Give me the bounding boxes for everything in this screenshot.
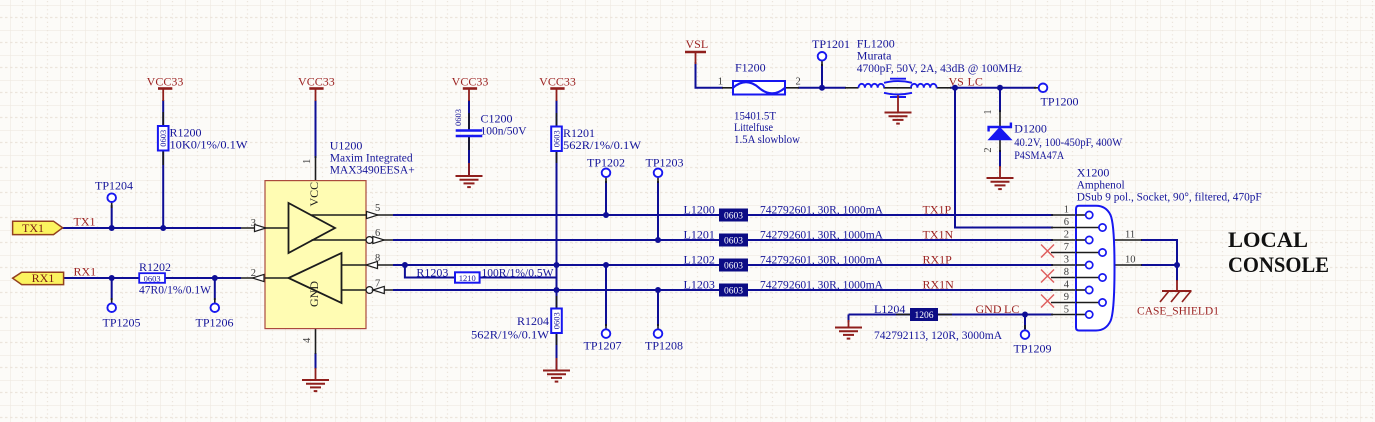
no-ERC mark pin 8 bbox=[1041, 270, 1054, 283]
pin X1200.7 bbox=[1051, 252, 1099, 254]
junction RX1N-R1204 bbox=[554, 287, 560, 293]
ground U1200 pin 4 bbox=[302, 368, 329, 391]
pin TP1207 bbox=[605, 324, 607, 330]
port TX1 bbox=[13, 221, 63, 235]
junction VS_LC pin6 bbox=[952, 85, 958, 91]
svg-text:1210: 1210 bbox=[459, 273, 476, 283]
svg-text:L1201: L1201 bbox=[684, 228, 715, 242]
svg-text:1: 1 bbox=[718, 77, 723, 88]
svg-text:8: 8 bbox=[375, 253, 380, 264]
svg-text:R1202: R1202 bbox=[139, 260, 171, 274]
wire TP1207 rise bbox=[605, 265, 607, 326]
pin R1200 bottom bbox=[162, 151, 164, 166]
junction TP1209 bbox=[1022, 312, 1028, 318]
svg-text:6: 6 bbox=[375, 228, 380, 239]
svg-text:VCC33: VCC33 bbox=[452, 75, 489, 89]
pin X1200.8 bbox=[1051, 277, 1099, 279]
junction RX1P-TP1207 bbox=[603, 262, 609, 268]
wire R1203 branch bbox=[405, 265, 557, 290]
pin TP1205 bbox=[111, 298, 113, 304]
wire TP1205 drop bbox=[111, 278, 113, 300]
svg-text:1.5A slowblow: 1.5A slowblow bbox=[734, 132, 800, 146]
pin U1200.3 bbox=[241, 227, 265, 229]
svg-text:742792601, 30R, 1000mA: 742792601, 30R, 1000mA bbox=[760, 253, 883, 267]
pin U1200.2 bbox=[241, 277, 265, 279]
pin FL1200 middle bbox=[884, 87, 913, 89]
svg-text:2: 2 bbox=[796, 77, 801, 88]
svg-text:L1202: L1202 bbox=[684, 253, 715, 267]
svg-text:3: 3 bbox=[251, 218, 256, 229]
svg-text:L1200: L1200 bbox=[684, 203, 715, 217]
pin X1200.6 bbox=[1051, 227, 1099, 229]
svg-text:TP1208: TP1208 bbox=[645, 339, 683, 353]
svg-text:2: 2 bbox=[1064, 230, 1069, 241]
svg-text:742792601, 30R, 1000mA: 742792601, 30R, 1000mA bbox=[760, 228, 883, 242]
resistor R1203 bbox=[416, 266, 554, 284]
wire GND_LC row bbox=[849, 314, 1054, 316]
svg-text:F1200: F1200 bbox=[735, 61, 766, 75]
pin X1200.3 bbox=[1051, 264, 1086, 266]
svg-text:1: 1 bbox=[1064, 205, 1069, 216]
svg-text:GND: GND bbox=[307, 281, 321, 307]
wire TP1204 drop bbox=[111, 205, 113, 228]
inductor L1200 bbox=[684, 203, 884, 222]
svg-text:0603: 0603 bbox=[551, 130, 561, 147]
svg-text:0603: 0603 bbox=[158, 130, 168, 147]
testpoint TP1200 bbox=[1039, 84, 1079, 109]
svg-text:D1200: D1200 bbox=[1014, 122, 1047, 136]
junction TX1N-TP1203 bbox=[655, 237, 661, 243]
filter FL1200 bbox=[857, 37, 1022, 113]
svg-text:R1203: R1203 bbox=[416, 266, 448, 280]
svg-text:GND: GND bbox=[976, 302, 1002, 316]
pin TP1202 bbox=[605, 177, 607, 183]
U1200 pin 8 arrow bbox=[366, 261, 378, 268]
testpoint TP1204 bbox=[95, 179, 133, 203]
svg-text:L1203: L1203 bbox=[684, 278, 715, 292]
svg-text:VS: VS bbox=[949, 74, 964, 88]
wire VSL vertical bbox=[696, 62, 724, 88]
pin R1201 bottom bbox=[556, 151, 558, 163]
testpoint TP1208 bbox=[645, 329, 683, 352]
testpoint TP1202 bbox=[587, 156, 625, 178]
inductor L1202 bbox=[684, 253, 884, 272]
junction RX1N-TP1208 bbox=[655, 287, 661, 293]
svg-text:742792113, 120R, 3000mA: 742792113, 120R, 3000mA bbox=[874, 328, 1002, 342]
junction TP1201 bbox=[819, 85, 825, 91]
diode D1200 bbox=[983, 110, 1123, 163]
wire DSub pin 11 bbox=[1141, 240, 1177, 265]
svg-text:DSub 9 pol., Socket, 90°, filt: DSub 9 pol., Socket, 90°, filtered, 470p… bbox=[1077, 190, 1262, 204]
fuse F1200 bbox=[718, 61, 801, 146]
svg-text:TX1N: TX1N bbox=[923, 228, 954, 242]
U1200 pin 3 arrow bbox=[255, 224, 267, 231]
junction pin10-11 bbox=[1174, 262, 1180, 268]
svg-text:100R/1%/0.5W: 100R/1%/0.5W bbox=[482, 266, 555, 280]
port RX1 bbox=[13, 271, 64, 285]
testpoint TP1209 bbox=[1014, 330, 1052, 355]
svg-text:VCC: VCC bbox=[307, 182, 321, 207]
wire R1204 to ground bbox=[556, 333, 558, 370]
junction RX1P-R1203 bbox=[402, 262, 408, 268]
net label VSL bbox=[685, 37, 708, 64]
wire R1201 to RX1P bbox=[556, 151, 558, 290]
wire TX1 row to U1200 pin 3 bbox=[63, 227, 241, 229]
svg-text:RX1N: RX1N bbox=[923, 278, 955, 292]
testpoint TP1206 bbox=[196, 303, 234, 329]
U1200 pin 2 arrow bbox=[253, 274, 265, 281]
svg-text:8: 8 bbox=[1064, 267, 1069, 278]
pin X1200.11 bbox=[1114, 239, 1142, 241]
pin U1200.4 bbox=[315, 328, 317, 354]
pin FL1200 right bbox=[937, 87, 952, 89]
junction TX1P-TP1202 bbox=[603, 212, 609, 218]
svg-text:7: 7 bbox=[1064, 242, 1069, 253]
wire to case shield bbox=[1176, 265, 1178, 281]
testpoint TP1205 bbox=[103, 303, 141, 329]
wire C1200 bottom bbox=[468, 136, 470, 176]
pin F1200 left bbox=[722, 87, 733, 89]
svg-text:5: 5 bbox=[375, 203, 380, 214]
pin X1200.1 bbox=[1051, 214, 1086, 216]
pin C1200 bbox=[468, 113, 470, 129]
inductor L1201 bbox=[684, 228, 884, 247]
pin R1204 bottom bbox=[556, 333, 558, 345]
svg-text:VCC33: VCC33 bbox=[147, 75, 184, 89]
svg-text:0603: 0603 bbox=[724, 237, 743, 247]
svg-text:P4SMA47A: P4SMA47A bbox=[1014, 148, 1064, 162]
wire row TX1P bbox=[393, 214, 1053, 216]
wire U1200 pin1 VCC bbox=[315, 100, 317, 158]
U1200 pin 7 bubble+arrow bbox=[366, 286, 384, 293]
title LOCAL CONSOLE bbox=[1228, 227, 1329, 277]
U1200 pin 6 bubble+arrow bbox=[366, 236, 384, 243]
svg-text:R1204: R1204 bbox=[517, 314, 549, 328]
svg-text:1: 1 bbox=[983, 110, 994, 115]
testpoint TP1203 bbox=[646, 156, 684, 178]
U1200 pin 5 arrow bbox=[367, 211, 379, 218]
svg-text:4: 4 bbox=[1064, 280, 1070, 291]
testpoint TP1207 bbox=[584, 329, 622, 352]
wire L1204 to ground bbox=[848, 315, 850, 323]
wire RX1 row to U1200 pin 2 bbox=[64, 277, 241, 279]
svg-text:562R/1%/0.1W: 562R/1%/0.1W bbox=[563, 138, 642, 152]
no-ERC mark pin 7 bbox=[1041, 245, 1054, 258]
junction RX1-TP1206 bbox=[212, 275, 218, 281]
svg-text:3: 3 bbox=[1064, 255, 1069, 266]
op-amp U1200 body bbox=[265, 181, 366, 329]
svg-text:VCC33: VCC33 bbox=[298, 75, 335, 89]
pin U1200.8 bbox=[366, 264, 393, 266]
ground L1204 bbox=[835, 320, 862, 339]
pin R1201 top bbox=[556, 113, 558, 127]
svg-text:0603: 0603 bbox=[724, 262, 743, 272]
pin D1200 bottom bbox=[999, 139, 1001, 152]
svg-text:4: 4 bbox=[302, 337, 313, 343]
resistor R1202 bbox=[139, 260, 212, 297]
svg-text:TP1209: TP1209 bbox=[1014, 342, 1052, 356]
capacitor C1200 bbox=[453, 109, 527, 138]
no-ERC mark pin 9 bbox=[1041, 295, 1054, 308]
inductor L1203 bbox=[684, 278, 884, 297]
svg-text:CASE_SHIELD1: CASE_SHIELD1 bbox=[1137, 304, 1219, 318]
svg-text:TP1202: TP1202 bbox=[587, 156, 625, 170]
pin U1200.6 bbox=[366, 239, 393, 241]
svg-text:100n/50V: 100n/50V bbox=[481, 124, 527, 138]
svg-text:4700pF, 50V, 2A, 43dB @ 100MHz: 4700pF, 50V, 2A, 43dB @ 100MHz bbox=[857, 61, 1022, 75]
pin TP1208 bbox=[657, 324, 659, 330]
pin X1200.5 bbox=[1051, 314, 1086, 316]
pin U1200.5 bbox=[366, 214, 393, 216]
junction RX1P-R1201 bbox=[554, 262, 560, 268]
wire VS_LC to DSub pin 6 bbox=[955, 88, 1053, 228]
pin R1200 top bbox=[162, 112, 164, 126]
svg-text:40.2V, 100-450pF, 400W: 40.2V, 100-450pF, 400W bbox=[1014, 135, 1123, 149]
pin TP1203 bbox=[657, 177, 659, 183]
svg-text:0603: 0603 bbox=[724, 287, 743, 297]
pin U1200.7 bbox=[366, 289, 393, 291]
wire U1200 pin4 to ground bbox=[315, 353, 317, 369]
svg-text:TP1203: TP1203 bbox=[646, 156, 684, 170]
svg-text:6: 6 bbox=[1064, 217, 1069, 228]
wire fuse to filter bbox=[798, 87, 846, 89]
resistor R1201 bbox=[551, 126, 641, 152]
svg-text:0603: 0603 bbox=[453, 109, 463, 126]
svg-text:0603: 0603 bbox=[551, 312, 561, 329]
svg-text:1206: 1206 bbox=[915, 311, 934, 321]
svg-text:0603: 0603 bbox=[724, 212, 743, 222]
power VCC33 at U1200 bbox=[298, 75, 335, 102]
pin C1200 bottom bbox=[468, 137, 470, 151]
ground C1200 bbox=[456, 163, 483, 187]
svg-text:10: 10 bbox=[1125, 255, 1136, 266]
svg-text:TP1206: TP1206 bbox=[196, 316, 234, 330]
pin TP1204 bbox=[111, 202, 113, 208]
resistor R1200 bbox=[158, 126, 248, 152]
testpoint TP1201 bbox=[812, 37, 850, 61]
svg-text:742792601, 30R, 1000mA: 742792601, 30R, 1000mA bbox=[760, 278, 883, 292]
pin TP1206 bbox=[214, 298, 216, 304]
pin TP1201 bbox=[821, 61, 823, 67]
ground FL1200 bbox=[885, 113, 912, 124]
wire TP1208 rise bbox=[657, 290, 659, 326]
svg-text:47R0/1%/0.1W: 47R0/1%/0.1W bbox=[139, 283, 212, 297]
pin FL1200 left bbox=[845, 87, 859, 89]
svg-text:CONSOLE: CONSOLE bbox=[1228, 252, 1329, 277]
wire C1200 top bbox=[468, 100, 470, 130]
junction D1200 bbox=[997, 85, 1003, 91]
svg-text:10K0/1%/0.1W: 10K0/1%/0.1W bbox=[170, 138, 249, 152]
svg-text:TP1200: TP1200 bbox=[1041, 95, 1079, 109]
pin R1204 stubs bbox=[556, 296, 558, 309]
svg-text:VSL: VSL bbox=[686, 37, 709, 51]
pin TP1200 bbox=[1034, 87, 1039, 89]
svg-text:TX1: TX1 bbox=[74, 215, 96, 229]
pin X1200.2 bbox=[1051, 239, 1086, 241]
resistor R1204 bbox=[471, 309, 562, 342]
pin X1200.4 bbox=[1051, 289, 1086, 291]
svg-text:742792601, 30R, 1000mA: 742792601, 30R, 1000mA bbox=[760, 203, 883, 217]
wire TP1209 drop bbox=[1024, 315, 1026, 330]
svg-text:7: 7 bbox=[375, 279, 380, 290]
svg-text:9: 9 bbox=[1064, 292, 1069, 303]
wire filter to TP1200 bbox=[950, 87, 1036, 89]
svg-text:LC: LC bbox=[968, 74, 983, 88]
pin F1200 right bbox=[785, 87, 799, 89]
svg-text:L1204: L1204 bbox=[874, 302, 905, 316]
chassis CASE_SHIELD1 bbox=[1137, 280, 1219, 318]
svg-text:LC: LC bbox=[1004, 302, 1019, 316]
ground D1200 bbox=[987, 166, 1014, 189]
pin L1204 right bbox=[938, 314, 952, 316]
svg-text:562R/1%/0.1W: 562R/1%/0.1W bbox=[471, 328, 550, 342]
wire TP1206 drop bbox=[214, 278, 216, 300]
wire TP1203 drop bbox=[657, 181, 659, 240]
svg-text:5: 5 bbox=[1064, 305, 1069, 316]
pin D1200 top bbox=[999, 110, 1001, 127]
svg-text:LOCAL: LOCAL bbox=[1228, 227, 1308, 252]
pin L1204 left bbox=[896, 314, 910, 316]
svg-text:VCC33: VCC33 bbox=[539, 75, 576, 89]
wire row RX1P bbox=[393, 264, 1053, 266]
wire row RX1N bbox=[393, 289, 1053, 291]
wire DSub pin 10 bbox=[1141, 264, 1177, 266]
power VCC33 at R1201 bbox=[539, 75, 576, 102]
svg-text:TP1207: TP1207 bbox=[584, 339, 622, 353]
svg-text:TX1: TX1 bbox=[22, 221, 44, 235]
junction TX1-TP1204 bbox=[109, 225, 115, 231]
svg-text:1: 1 bbox=[302, 159, 313, 164]
svg-text:11: 11 bbox=[1125, 230, 1135, 241]
wire row TX1N bbox=[393, 239, 1053, 241]
wire R1201 column bbox=[556, 100, 558, 126]
power VCC33 at R1200 bbox=[147, 75, 184, 102]
svg-text:RX1: RX1 bbox=[74, 265, 97, 279]
wire D1200 bottom bbox=[999, 150, 1001, 167]
svg-text:RX1: RX1 bbox=[32, 271, 55, 285]
junction RX1-TP1205 bbox=[109, 275, 115, 281]
ground R1204 bbox=[543, 358, 570, 382]
wire TP1201 drop bbox=[821, 64, 823, 88]
svg-text:2: 2 bbox=[251, 268, 256, 279]
pin TP1209 bbox=[1024, 325, 1026, 331]
power VCC33 at C1200 bbox=[452, 75, 489, 102]
svg-text:MAX3490EESA+: MAX3490EESA+ bbox=[330, 163, 415, 177]
wire R1200 column bbox=[162, 100, 164, 228]
pin X1200.9 bbox=[1051, 302, 1099, 304]
svg-text:TX1P: TX1P bbox=[923, 203, 952, 217]
inductor L1204 bbox=[874, 302, 1002, 342]
svg-text:TP1201: TP1201 bbox=[812, 37, 850, 51]
wire D1200 top bbox=[999, 88, 1001, 112]
wire TP1202 drop bbox=[605, 181, 607, 215]
pin U1200.1 bbox=[315, 156, 317, 181]
svg-text:TP1205: TP1205 bbox=[103, 316, 141, 330]
pin X1200.10 bbox=[1114, 264, 1142, 266]
junction TX1-R1200 bbox=[160, 225, 166, 231]
connector X1200 body bbox=[1076, 206, 1115, 331]
wire R1204 column bbox=[556, 290, 558, 308]
svg-text:TP1204: TP1204 bbox=[95, 179, 133, 193]
svg-text:2: 2 bbox=[983, 148, 994, 153]
svg-text:RX1P: RX1P bbox=[923, 253, 953, 267]
